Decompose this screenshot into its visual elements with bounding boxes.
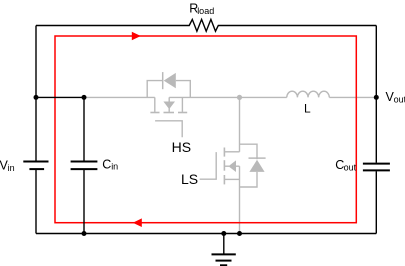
svg-text:out: out xyxy=(394,94,405,104)
svg-text:HS: HS xyxy=(172,139,191,155)
svg-text:C: C xyxy=(102,157,111,171)
svg-text:in: in xyxy=(8,163,15,173)
svg-text:out: out xyxy=(344,163,357,173)
svg-text:load: load xyxy=(197,6,214,16)
svg-text:LS: LS xyxy=(181,171,198,187)
svg-text:L: L xyxy=(304,102,311,116)
svg-text:in: in xyxy=(111,162,118,172)
